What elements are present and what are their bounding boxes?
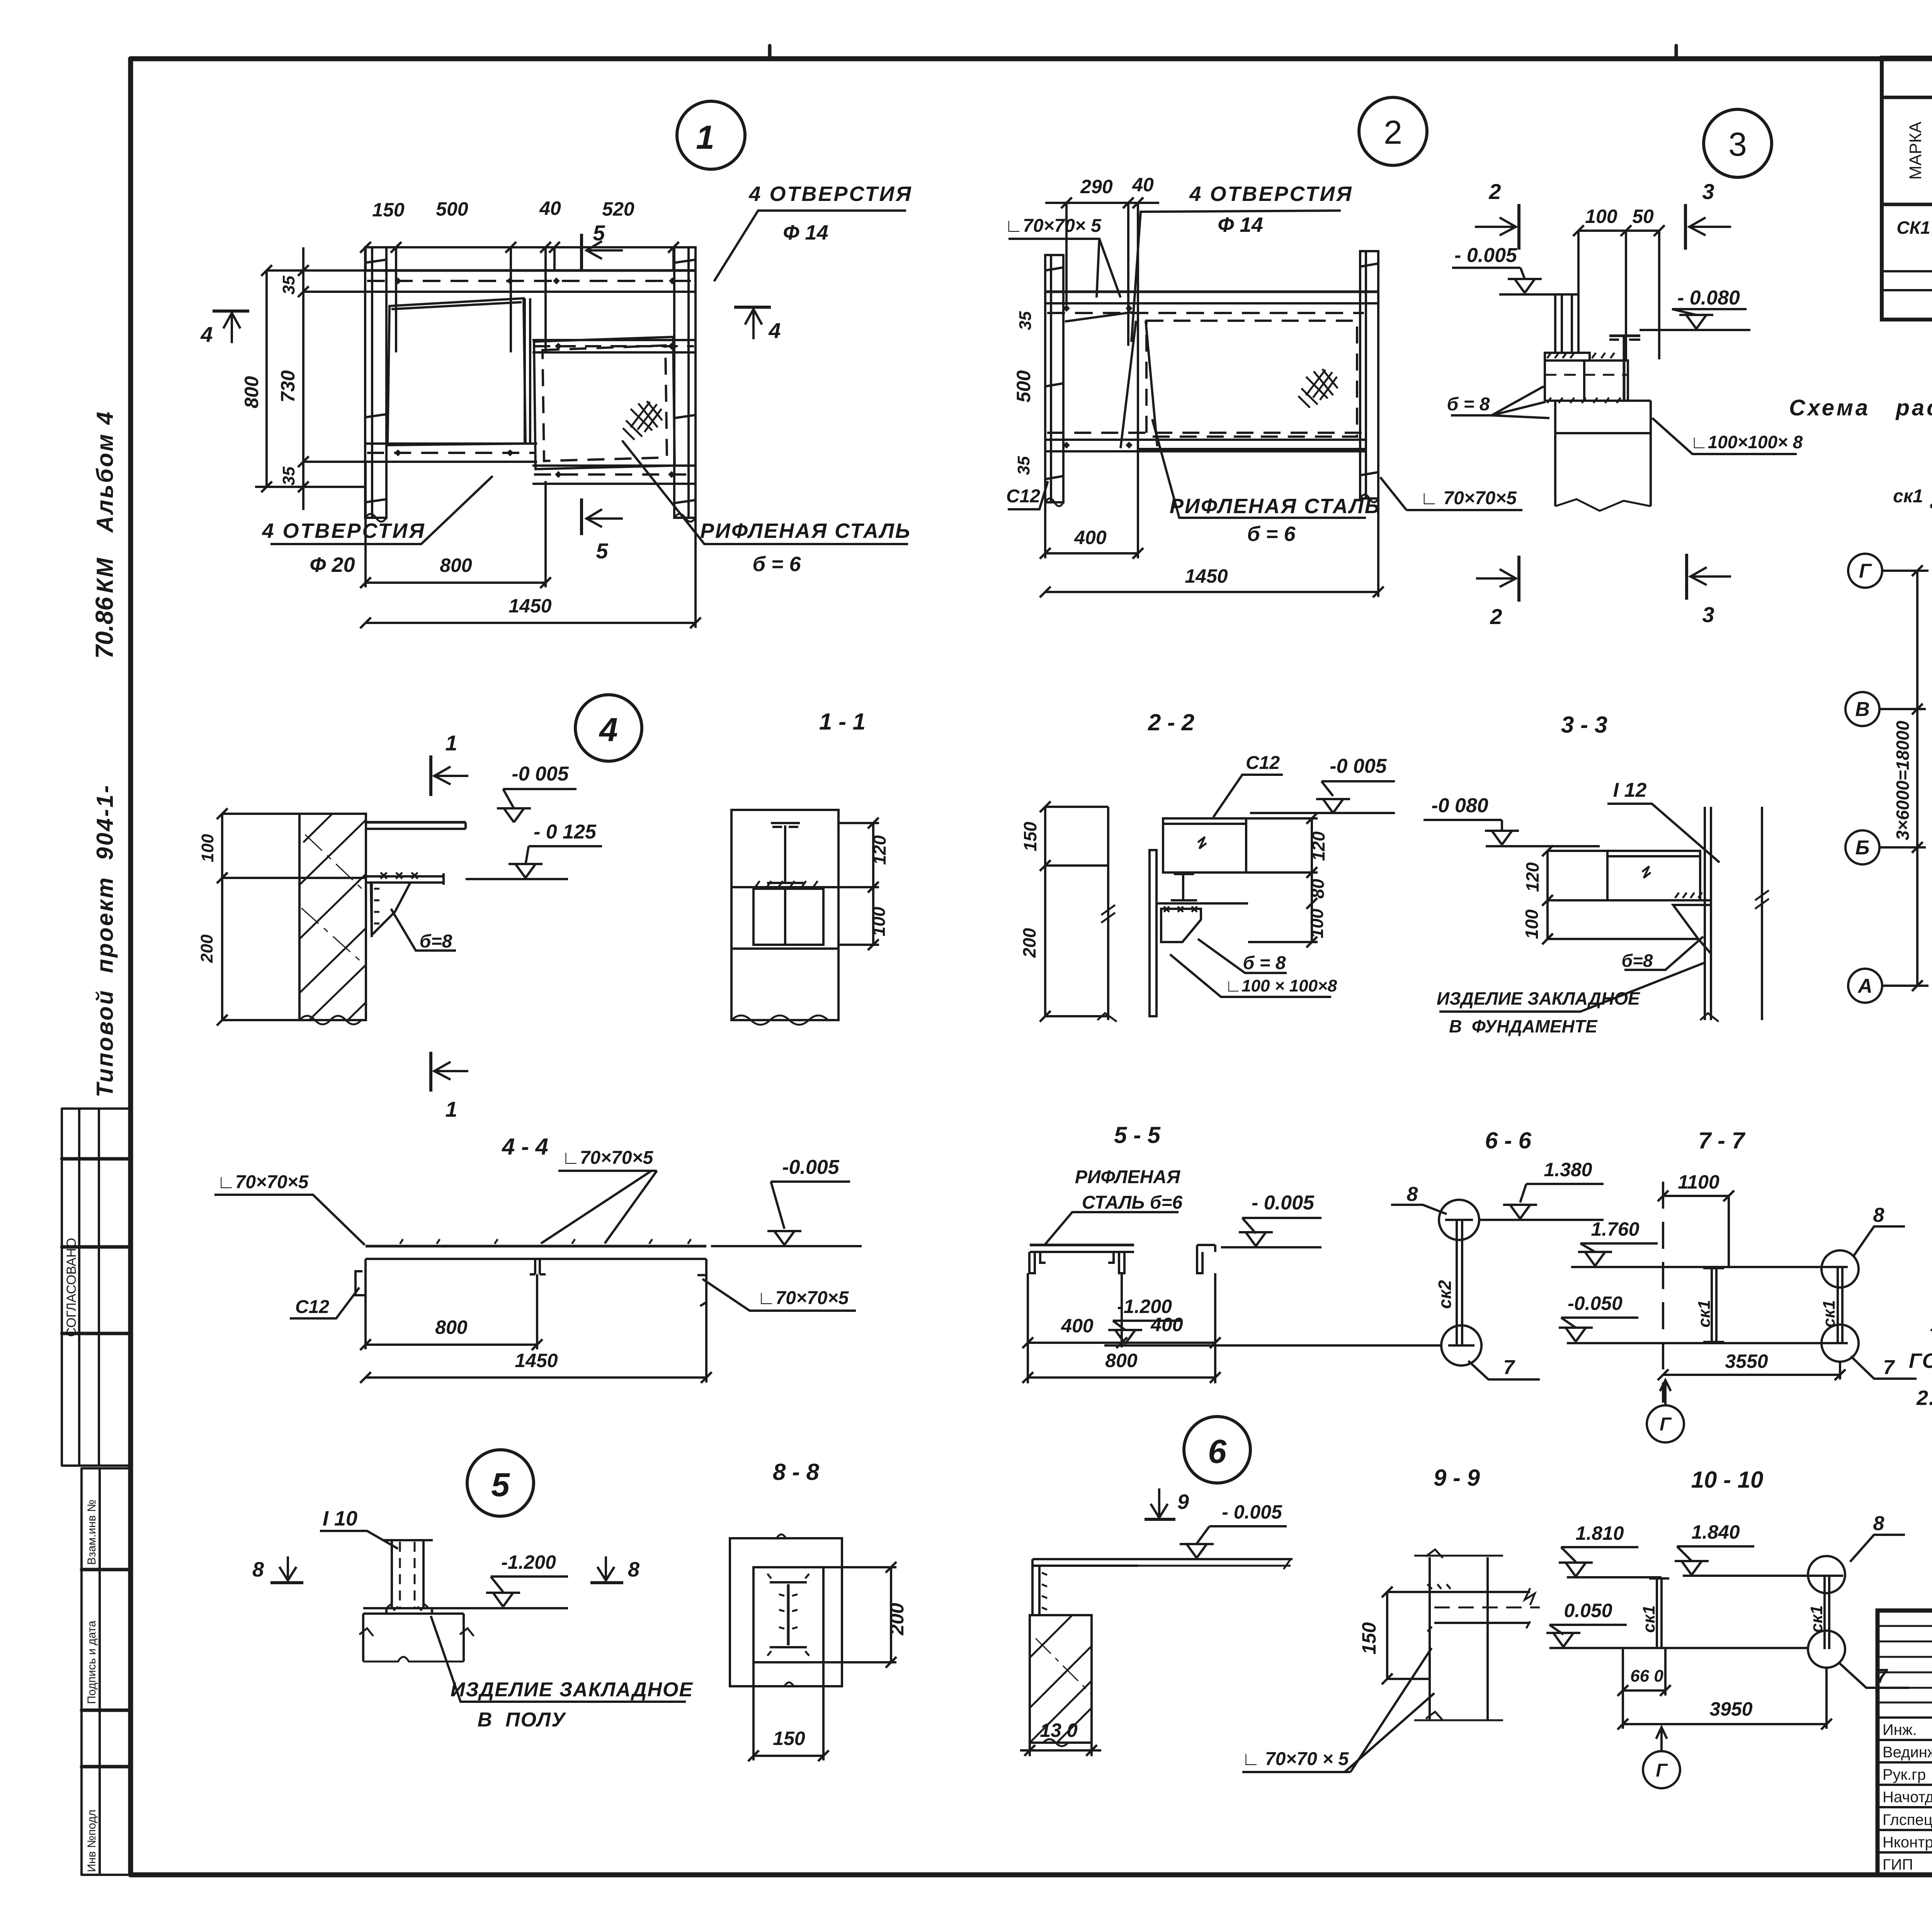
- svg-text:35: 35: [279, 466, 298, 485]
- I beam 1-1: [784, 825, 786, 883]
- svg-text:ИЗДЕЛИЕ ЗАКЛАДНОЕ: ИЗДЕЛИЕ ЗАКЛАДНОЕ: [451, 1679, 693, 1701]
- svg-text:5: 5: [491, 1466, 510, 1503]
- svg-text:1.Конструкции сварные Сварку: 1.Конструкции сварные Сварку производить…: [1930, 1313, 1932, 1336]
- svg-text:150: 150: [773, 1728, 805, 1749]
- dim 660: [1622, 1648, 1624, 1729]
- angle leg det6: [1031, 1559, 1034, 1615]
- svg-text:Типовой проект 904-1-: Типовой проект 904-1-: [92, 784, 118, 1097]
- svg-text:Инв №подл: Инв №подл: [85, 1810, 98, 1872]
- L70x70x5 bottom-right leader 4-4: [702, 1279, 856, 1311]
- svg-text:7: 7: [1876, 1665, 1888, 1687]
- C12 bottom leader 4-4: [290, 1287, 359, 1318]
- CK1 post right 10-10: [1823, 1576, 1826, 1649]
- svg-text:1450: 1450: [515, 1350, 558, 1371]
- top chord band: [365, 269, 696, 272]
- callout circle 4: [575, 695, 642, 761]
- title block: [1878, 1611, 1932, 1875]
- svg-text:3 - 3: 3 - 3: [1561, 712, 1607, 738]
- svg-text:120: 120: [1522, 862, 1543, 892]
- section marker 2 bottom: [1517, 556, 1520, 602]
- leader 4 отверстия ф14 det2: [1131, 211, 1341, 342]
- svg-text:б = 6: б = 6: [1247, 522, 1296, 546]
- level -0.080: [1672, 308, 1747, 310]
- leader рифленая сталь: [622, 440, 908, 544]
- svg-text:400: 400: [1061, 1315, 1094, 1337]
- svg-text:-1.200: -1.200: [501, 1551, 556, 1573]
- svg-text:I 10: I 10: [323, 1507, 357, 1530]
- svg-text:100: 100: [1585, 206, 1617, 227]
- svg-text:7: 7: [1883, 1356, 1895, 1379]
- wall 3-3: [1704, 807, 1706, 1020]
- svg-text:100: 100: [869, 906, 889, 936]
- CK1 post right 7-7: [1837, 1267, 1839, 1343]
- left channel upright: [365, 247, 386, 518]
- lone angle 5-5: [1197, 1245, 1215, 1273]
- bent plate interior lines det2: [1121, 321, 1136, 448]
- embedded box: [1545, 361, 1628, 401]
- right channel det2: [1360, 251, 1378, 498]
- svg-text:Рук.гр: Рук.гр: [1883, 1766, 1926, 1783]
- svg-text:200: 200: [197, 934, 216, 963]
- top chord band det2: [1045, 291, 1378, 293]
- svg-text:А: А: [1857, 975, 1872, 997]
- left floor panel: [388, 298, 526, 445]
- 8 leader 7-7: [1853, 1226, 1905, 1257]
- leader L70x70x5 det2: [1009, 239, 1121, 298]
- column I10: [391, 1540, 393, 1609]
- bottom dim 1450: [366, 622, 696, 624]
- svg-text:1.840: 1.840: [1691, 1521, 1740, 1543]
- svg-text:ск2: ск2: [1435, 1280, 1455, 1309]
- shelf and gusset 2-2: [1156, 902, 1248, 905]
- plan texts: [1855, 404, 1932, 1116]
- top support circle 6-6: [1439, 1200, 1479, 1240]
- svg-text:РИФЛЕНАЯ СТАЛЬ: РИФЛЕНАЯ СТАЛЬ: [700, 519, 911, 543]
- console bracket: [366, 875, 444, 878]
- detail 2 texts: [1005, 174, 1517, 587]
- shelf plate: [366, 821, 466, 824]
- svg-text:-0.005: -0.005: [782, 1156, 840, 1179]
- weld ticks around box: [1547, 353, 1614, 358]
- post 6-6: [1456, 1220, 1458, 1345]
- svg-text:1: 1: [696, 119, 714, 156]
- svg-text:- 0.005: - 0.005: [1252, 1192, 1315, 1214]
- L70x70x5 right leader 4-4: [541, 1171, 657, 1243]
- foundation below: [1545, 400, 1651, 402]
- dim 150 9-9: [1386, 1592, 1388, 1679]
- svg-text:400: 400: [1074, 527, 1107, 548]
- bottom band left: [365, 442, 537, 445]
- left channel det2: [1045, 255, 1063, 502]
- svg-text:- 0.005: - 0.005: [1454, 244, 1517, 267]
- deck bar 4-4: [366, 1245, 706, 1248]
- left end channel C12: [355, 1259, 366, 1295]
- svg-text:Взам.инв №: Взам.инв №: [85, 1500, 98, 1565]
- left dims 800 / 35 730 35: [265, 270, 268, 487]
- L70x70x5 right leader det2: [1380, 477, 1522, 510]
- column 9-9: [1429, 1557, 1431, 1719]
- delta=8 leaders: [1451, 386, 1549, 418]
- svg-text:35: 35: [1014, 456, 1033, 475]
- svg-text:80: 80: [1308, 879, 1328, 899]
- inner embed 8-8: [753, 1567, 823, 1662]
- svg-text:290: 290: [1080, 176, 1113, 197]
- dim 1450 4-4: [366, 1376, 706, 1379]
- I10 leader: [320, 1531, 398, 1549]
- svg-text:∟100 × 100×8: ∟100 × 100×8: [1225, 976, 1337, 995]
- Г circle 7-7: [1647, 1405, 1684, 1442]
- bottom band right: [532, 464, 696, 467]
- dim 3950: [1623, 1723, 1827, 1725]
- L100x100x8 leader 2-2: [1170, 954, 1331, 997]
- grid line Г: [1848, 554, 1882, 588]
- svg-text:- 0.080: - 0.080: [1677, 287, 1740, 309]
- svg-text:В: В: [1855, 698, 1870, 721]
- svg-text:СОГЛАСОВАНО: СОГЛАСОВАНО: [64, 1238, 79, 1337]
- callout circle 2: [1359, 97, 1427, 165]
- изделие закладное в полу leader: [431, 1616, 686, 1702]
- level -0.080 3-3: [1423, 819, 1502, 821]
- beam channel 3-3: [1607, 851, 1700, 900]
- leader 4 отверстия ф20: [270, 476, 493, 544]
- C12 leader 2-2: [1213, 775, 1283, 817]
- svg-text:МАРКА: МАРКА: [1906, 121, 1925, 180]
- level -0.005 2-2: [1321, 780, 1395, 782]
- channel section 5-5: [1030, 1244, 1134, 1247]
- svg-text:1 - 1: 1 - 1: [819, 709, 866, 735]
- svg-text:3550: 3550: [1725, 1350, 1768, 1372]
- svg-text:35: 35: [279, 276, 298, 294]
- svg-text:3: 3: [1728, 126, 1747, 163]
- dim 130 det6: [1030, 1762, 1092, 1762]
- svg-text:500: 500: [436, 198, 468, 220]
- svg-text:Начотд: Начотд: [1883, 1789, 1932, 1806]
- svg-text:100: 100: [1522, 909, 1542, 939]
- svg-text:б = 6: б = 6: [752, 553, 801, 576]
- level -0.005 4-4: [771, 1180, 850, 1183]
- callout circle 5: [467, 1450, 534, 1516]
- dim 400 400 5-5: [1028, 1342, 1215, 1344]
- svg-text:ск1: ск1: [1820, 1300, 1838, 1327]
- section marker 5 bottom: [580, 498, 583, 535]
- svg-text:КМ Альбом 4: КМ Альбом 4: [92, 410, 118, 593]
- bottom flange 3-3: [1607, 899, 1711, 901]
- delta8 leader 3-3: [1624, 937, 1703, 970]
- C12 leader det2: [1008, 481, 1048, 509]
- svg-text:б=8: б=8: [1622, 951, 1653, 971]
- centering mark top 1: [768, 46, 772, 59]
- svg-text:3×6000=18000: 3×6000=18000: [1893, 721, 1913, 840]
- support circles 7-7: [1821, 1250, 1859, 1287]
- I-beam right: [1623, 336, 1626, 400]
- svg-text:б = 8: б = 8: [1447, 394, 1490, 415]
- svg-text:1: 1: [445, 731, 457, 755]
- svg-text:С12: С12: [1246, 753, 1280, 773]
- svg-text:∟70×70× 5: ∟70×70× 5: [1005, 216, 1102, 236]
- svg-text:8: 8: [1407, 1183, 1418, 1206]
- svg-text:7: 7: [1503, 1356, 1515, 1379]
- detail 1 top dimension line: [366, 246, 673, 248]
- callout circle 1: [677, 101, 745, 169]
- svg-text:66 0: 66 0: [1630, 1667, 1663, 1685]
- svg-text:1.810: 1.810: [1575, 1522, 1624, 1544]
- L70x70x5 leader 9-9: [1242, 1648, 1434, 1772]
- svg-text:4 ОТВЕРСТИЯ: 4 ОТВЕРСТИЯ: [748, 182, 912, 206]
- right floor panel (chequered): [534, 337, 675, 469]
- svg-text:3: 3: [1702, 602, 1714, 627]
- dims left 2-2: [1044, 807, 1046, 1016]
- 8 leader 6-6: [1391, 1205, 1447, 1214]
- svg-text:35: 35: [1016, 311, 1035, 330]
- dims right 1-1: [872, 823, 874, 945]
- level -0.125 det4: [529, 845, 602, 847]
- svg-text:5: 5: [596, 539, 608, 563]
- level -0.005 det6: [1209, 1525, 1287, 1527]
- рифленая сталь label leader 5-5: [1045, 1212, 1179, 1244]
- svg-text:ск1: ск1: [1893, 486, 1923, 507]
- рифленая сталь leader det2: [1152, 419, 1366, 518]
- svg-text:1450: 1450: [1185, 565, 1228, 587]
- svg-text:Подпись и дата: Подпись и дата: [85, 1621, 98, 1704]
- dim 200 8-8: [890, 1567, 892, 1662]
- section marker 4 right: [734, 306, 771, 309]
- svg-text:4 ОТВЕРСТИЯ: 4 ОТВЕРСТИЯ: [1189, 182, 1353, 206]
- column stub: [1555, 294, 1578, 353]
- svg-text:4: 4: [768, 318, 781, 343]
- concrete box 1-1: [731, 810, 838, 1020]
- svg-text:б=8: б=8: [420, 931, 452, 952]
- svg-text:СТАЛЬ б=6: СТАЛЬ б=6: [1082, 1192, 1183, 1213]
- right axis with breaks 3-3: [1761, 807, 1763, 1020]
- svg-text:800: 800: [1105, 1350, 1138, 1371]
- svg-text:Г: Г: [1859, 560, 1872, 582]
- leader 4 отверстия ф14: [714, 211, 906, 281]
- dims right 2-2: [1311, 818, 1313, 942]
- big chequer panel det2: [1138, 292, 1366, 449]
- 7 leader 6-6: [1468, 1361, 1540, 1379]
- изделие закладное leader 3-3: [1439, 963, 1704, 1012]
- svg-text:С12: С12: [295, 1297, 329, 1317]
- I stub 2-2: [1182, 874, 1184, 900]
- signature rows: [1883, 1721, 1932, 1873]
- chequer hatch: [623, 401, 662, 440]
- svg-text:∟70×70×5: ∟70×70×5: [757, 1288, 849, 1308]
- svg-text:200: 200: [886, 1603, 908, 1636]
- svg-text:∟70×70×5: ∟70×70×5: [217, 1172, 309, 1192]
- svg-text:120: 120: [869, 835, 889, 865]
- svg-text:8: 8: [628, 1558, 639, 1581]
- dim 150 8-8: [753, 1755, 823, 1757]
- svg-text:3: 3: [1702, 179, 1714, 204]
- section marker 2 top: [1517, 204, 1520, 250]
- masonry wall: [299, 814, 366, 1020]
- svg-text:5: 5: [593, 221, 605, 245]
- section marker 3 top: [1684, 204, 1687, 250]
- level 1.380: [1526, 1183, 1604, 1185]
- detail 3 texts: [1447, 179, 1803, 629]
- svg-text:1100: 1100: [1678, 1171, 1719, 1193]
- svg-text:520: 520: [602, 198, 634, 220]
- svg-text:-0 005: -0 005: [512, 763, 569, 785]
- L100x100x8 leader: [1652, 418, 1797, 454]
- svg-text:150: 150: [1358, 1622, 1380, 1655]
- svg-text:8: 8: [1873, 1204, 1884, 1226]
- svg-text:6: 6: [1208, 1433, 1227, 1470]
- svg-text:150: 150: [1020, 821, 1040, 851]
- masonry wall det6: [1030, 1615, 1092, 1743]
- dims left 3-3: [1546, 851, 1549, 939]
- svg-text:1.760: 1.760: [1591, 1218, 1639, 1240]
- svg-text:Схема расположения опор: Схема расположения опор трубопровода: [1789, 395, 1932, 420]
- Г circle 10-10: [1643, 1751, 1680, 1788]
- svg-text:40: 40: [1132, 174, 1154, 196]
- L70x70x5 left leader 4-4: [214, 1195, 365, 1245]
- support circles 10-10: [1808, 1556, 1845, 1593]
- dim 1100 7-7: [1663, 1195, 1729, 1197]
- svg-text:Ф 14: Ф 14: [1218, 213, 1263, 236]
- svg-text:С12: С12: [1006, 486, 1040, 507]
- svg-text:1: 1: [445, 1097, 457, 1121]
- svg-text:ГИП: ГИП: [1883, 1856, 1913, 1873]
- bottom support circle 6-6: [1441, 1325, 1481, 1366]
- svg-text:∟70×70×5: ∟70×70×5: [562, 1148, 654, 1168]
- level -0.005 det4: [503, 788, 577, 790]
- wall axis 2-2: [1107, 807, 1109, 908]
- svg-text:200: 200: [1019, 928, 1039, 958]
- svg-text:Г: Г: [1660, 1414, 1672, 1435]
- grid line В: [1845, 692, 1879, 726]
- svg-text:В ПОЛУ: В ПОЛУ: [478, 1709, 566, 1731]
- bottom dim 1450 det2: [1045, 591, 1378, 593]
- svg-text:730: 730: [277, 370, 299, 403]
- vertical dim 3x6000=18000: [1916, 571, 1918, 986]
- embed box 1-1: [731, 886, 838, 888]
- svg-text:Ф 14: Ф 14: [783, 221, 828, 244]
- svg-text:∟ 70×70 × 5: ∟ 70×70 × 5: [1242, 1749, 1349, 1769]
- bottom dim 400 det2: [1045, 552, 1138, 554]
- svg-text:∟100×100× 8: ∟100×100× 8: [1690, 432, 1803, 452]
- svg-text:РИФЛЕНАЯ: РИФЛЕНАЯ: [1075, 1167, 1180, 1187]
- svg-text:13 0: 13 0: [1040, 1719, 1078, 1741]
- svg-text:5 - 5: 5 - 5: [1114, 1122, 1161, 1148]
- bottom band det2: [1045, 439, 1366, 441]
- svg-text:В ФУНДАМЕНТЕ: В ФУНДАМЕНТЕ: [1449, 1016, 1598, 1036]
- svg-text:8: 8: [252, 1558, 264, 1581]
- svg-text:Г: Г: [1656, 1760, 1668, 1781]
- svg-text:ск1: ск1: [1695, 1300, 1714, 1327]
- svg-text:ГОСТ 9467-75.: ГОСТ 9467-75.: [1909, 1349, 1932, 1372]
- svg-text:4 ОТВЕРСТИЯ: 4 ОТВЕРСТИЯ: [262, 519, 425, 543]
- base plate: [1545, 353, 1590, 361]
- dim 800 5-5: [1028, 1376, 1215, 1379]
- svg-text:2: 2: [1490, 604, 1502, 629]
- embed strip 2-2: [1150, 850, 1156, 1016]
- level 1.760: [1580, 1242, 1658, 1245]
- channel box 2-2: [1163, 818, 1246, 872]
- floor line: [363, 1607, 568, 1609]
- СК1 leaders top: [1930, 479, 1932, 559]
- svg-text:I 12: I 12: [1613, 779, 1647, 801]
- CK1 post left 10-10: [1656, 1578, 1658, 1647]
- left dims det2: [1034, 292, 1035, 451]
- svg-text:2 - 2: 2 - 2: [1148, 709, 1194, 735]
- level -0.050: [1561, 1316, 1638, 1319]
- grid line Б: [1845, 830, 1879, 864]
- level -0.005 5-5: [1242, 1217, 1321, 1219]
- svg-text:Ф 20: Ф 20: [310, 553, 355, 577]
- svg-text:800: 800: [440, 554, 472, 576]
- svg-text:150: 150: [372, 199, 405, 221]
- level -0.005: [1452, 267, 1520, 269]
- section marker 9: [1151, 1488, 1168, 1518]
- outer concrete 8-8: [730, 1538, 842, 1686]
- svg-text:800: 800: [241, 376, 262, 408]
- svg-text:РИФЛЕНАЯ СТАЛЬ: РИФЛЕНАЯ СТАЛЬ: [1170, 495, 1381, 518]
- 7 leader 7-7: [1851, 1356, 1917, 1379]
- grid line А: [1848, 969, 1882, 1003]
- svg-text:-1.200: -1.200: [1117, 1296, 1172, 1317]
- svg-text:∟ 70×70×5: ∟ 70×70×5: [1420, 488, 1517, 509]
- level -1.200: [1113, 1320, 1182, 1322]
- svg-text:70.86: 70.86: [90, 597, 118, 659]
- mid joint angles: [534, 1259, 536, 1274]
- svg-text:100: 100: [1307, 908, 1327, 938]
- svg-text:- 0 125: - 0 125: [534, 821, 597, 843]
- row СК1: [1896, 216, 1932, 238]
- callout circle 3: [1704, 109, 1772, 177]
- right top band: [532, 339, 696, 341]
- level 1.810: [1561, 1546, 1638, 1548]
- svg-text:2: 2: [1488, 179, 1501, 204]
- svg-text:ск1: ск1: [1639, 1605, 1658, 1633]
- svg-text:800: 800: [435, 1316, 468, 1338]
- level 0.050: [1549, 1624, 1627, 1626]
- 8 leader 10-10: [1850, 1535, 1905, 1562]
- svg-text:ИЗДЕЛИЕ ЗАКЛАДНОЕ: ИЗДЕЛИЕ ЗАКЛАДНОЕ: [1437, 988, 1640, 1009]
- detail 2 top dimension line 290/40: [1045, 202, 1159, 204]
- callout circle 6: [1184, 1417, 1250, 1483]
- parts list table ВЕДОМОСТЬ ЭЛЕМЕНТОВ: [1882, 58, 1932, 320]
- svg-text:6 - 6: 6 - 6: [1485, 1128, 1532, 1153]
- section marker 3 bottom: [1685, 554, 1688, 600]
- right end angle: [705, 1259, 707, 1302]
- svg-text:100: 100: [198, 834, 217, 862]
- svg-text:50: 50: [1632, 206, 1654, 227]
- svg-text:8: 8: [1873, 1512, 1884, 1535]
- svg-text:2: 2: [1384, 114, 1402, 151]
- svg-text:2.Сварка ручная дуговая hш: 2.Сварка ручная дуговая hш = 4мм.: [1916, 1386, 1932, 1410]
- svg-text:-0.050: -0.050: [1568, 1293, 1622, 1314]
- bottom dim 800: [366, 582, 546, 584]
- I beam 8-8: [787, 1584, 790, 1645]
- svg-text:8 - 8: 8 - 8: [773, 1459, 820, 1485]
- svg-text:10 - 10: 10 - 10: [1691, 1467, 1764, 1493]
- svg-text:Глспец: Глспец: [1883, 1811, 1932, 1828]
- svg-text:-0 080: -0 080: [1431, 794, 1488, 817]
- svg-text:9: 9: [1177, 1490, 1189, 1514]
- svg-text:Инж.: Инж.: [1883, 1721, 1917, 1738]
- left stamp upper block: [62, 1109, 131, 1466]
- dim 800 4-4: [366, 1344, 537, 1346]
- detail 1 texts: [200, 182, 912, 617]
- top plate det6: [1032, 1558, 1293, 1560]
- level 1.840: [1677, 1545, 1754, 1548]
- section marker 1 top: [429, 755, 432, 796]
- svg-text:500: 500: [1013, 370, 1034, 403]
- dim 100 50: [1578, 230, 1659, 232]
- centering mark top 2: [1675, 46, 1678, 59]
- svg-text:4 - 4: 4 - 4: [502, 1134, 548, 1160]
